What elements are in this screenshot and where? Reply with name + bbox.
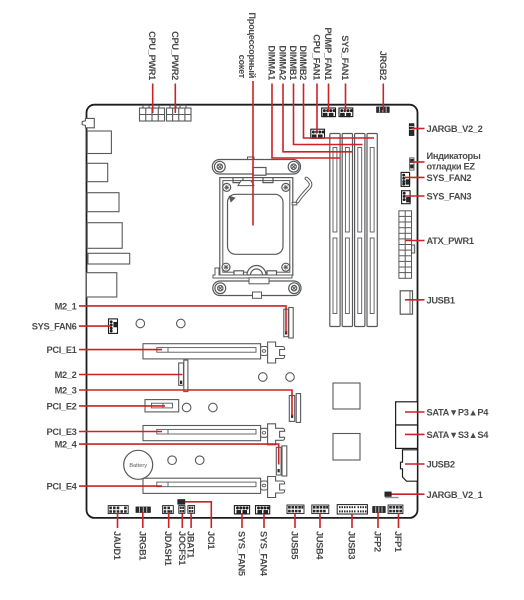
rear I/O port 2 (87, 163, 108, 181)
JUSB3 connector (337, 505, 367, 514)
PUMP_FAN1 connector (322, 108, 336, 117)
svg-text:JFP2: JFP2 (373, 531, 383, 552)
JOCFS1 connector (179, 506, 185, 514)
EZ debug LED indicators (410, 158, 414, 170)
leader SYS_FAN2 (405, 176, 425, 178)
SYS_FAN1 connector (339, 108, 353, 117)
leader JUSB5 (294, 514, 296, 528)
socket bottom arch (247, 266, 266, 276)
svg-text:PCI_E2: PCI_E2 (47, 401, 77, 411)
svg-text:JOCFS1: JOCFS1 (177, 531, 187, 565)
leader DIMMA1 (272, 84, 341, 159)
svg-text:сокет: сокет (237, 55, 247, 79)
SYS_FAN2 connector (401, 172, 410, 186)
PCI_E4 slot (143, 477, 285, 498)
standoff hole (286, 373, 295, 382)
DIMM slot DIMMA2 (342, 134, 352, 327)
svg-text:CPU_PWR2: CPU_PWR2 (170, 31, 180, 80)
svg-text:JARGB_V2_2: JARGB_V2_2 (427, 124, 483, 134)
CPU socket bottom bracket (213, 278, 301, 299)
leader M2_1 (79, 306, 286, 333)
leader SATA S3/S4 (405, 433, 425, 435)
leader JFP1 (398, 514, 400, 528)
svg-text:JUSB3: JUSB3 (347, 531, 357, 559)
CPU_PWR1 connector (140, 105, 165, 121)
leader DIMMB1 (294, 84, 363, 145)
M2_1 connector (284, 308, 293, 339)
leader SYS_FAN5 (241, 514, 243, 528)
leader PCI_E3 (79, 431, 162, 433)
rear I/O port 3 (87, 193, 119, 212)
leader SYS_FAN3 (405, 195, 425, 197)
JCI1 connector (178, 500, 185, 505)
CPU_PWR2 connector (167, 105, 192, 121)
leader SYS_FAN4 (263, 514, 265, 528)
JARGB_V2_2 connector (409, 124, 414, 136)
svg-text:JUSB2: JUSB2 (427, 460, 455, 470)
JFP1 connector (388, 505, 403, 514)
svg-text:DIMMA2: DIMMA2 (278, 45, 288, 80)
JUSB4 connector (312, 505, 329, 514)
leader M2_4 (79, 444, 279, 464)
standoff hole (168, 456, 177, 465)
leader M2_2 (79, 374, 183, 376)
leader PCI_E1 (79, 349, 162, 351)
JARGB_V2_1 connector (385, 492, 399, 498)
svg-text:SYS_FAN5: SYS_FAN5 (237, 531, 247, 576)
JAUD1 connector (108, 506, 128, 514)
standoff hole (182, 403, 191, 412)
standoff hole (195, 456, 204, 465)
JUSB5 connector (287, 505, 304, 514)
standoff hole (136, 319, 145, 328)
svg-text:ATX_PWR1: ATX_PWR1 (427, 236, 474, 246)
M2_3 connector (289, 394, 300, 423)
leader PCI_E4 (79, 485, 162, 487)
leader PUMP_FAN1 (328, 84, 330, 113)
leader DIMMA2 (283, 84, 352, 152)
leader SYS_FAN1 (345, 84, 347, 113)
svg-text:SYS_FAN2: SYS_FAN2 (427, 173, 472, 183)
svg-text:DIMMB1: DIMMB1 (288, 45, 298, 80)
JRGB2 connector (377, 107, 390, 112)
svg-text:JBAT1: JBAT1 (186, 531, 196, 558)
leader JDASH1 (168, 514, 170, 529)
PCI_E3 slot (143, 424, 285, 445)
leader JRGB2 (382, 84, 384, 111)
svg-text:SATA▼S3▲S4: SATA▼S3▲S4 (427, 430, 490, 440)
svg-text:SATA▼P3▲P4: SATA▼P3▲P4 (427, 408, 490, 418)
CPU socket top bracket (212, 157, 300, 175)
leader PCI_E2 (79, 405, 165, 407)
svg-text:JDASH1: JDASH1 (163, 531, 173, 566)
leader JUSB2 (405, 463, 425, 465)
M2_2 connector (179, 360, 188, 392)
leader CPU_PWR1 (152, 84, 154, 114)
leader JUSB4 (319, 514, 321, 528)
leader DIMMB2 (304, 84, 375, 139)
svg-text:Battery: Battery (129, 463, 147, 469)
svg-text:SYS_FAN1: SYS_FAN1 (340, 35, 350, 80)
svg-text:CPU_PWR1: CPU_PWR1 (147, 31, 157, 80)
svg-text:JCI1: JCI1 (206, 531, 216, 549)
leader EZ debug LEDs (412, 161, 425, 163)
rear I/O port 6 (86, 273, 116, 297)
JRGB1 connector (136, 507, 150, 512)
PCI_E1 slot (143, 342, 285, 363)
svg-text:M2_4: M2_4 (55, 440, 78, 450)
leader JAUD1 (117, 514, 119, 529)
svg-text:JUSB4: JUSB4 (315, 531, 325, 560)
svg-text:JARGB_V2_1: JARGB_V2_1 (427, 490, 483, 500)
svg-text:PCI_E1: PCI_E1 (47, 345, 77, 355)
JUSB2 connector (401, 450, 418, 481)
leader JRGB1 (142, 513, 144, 529)
CPU_FAN1 connector (311, 129, 325, 138)
leader JFP2 (377, 513, 379, 529)
rear I/O port 5 (88, 253, 130, 264)
leader ATX_PWR1 (405, 240, 425, 242)
svg-text:M2_3: M2_3 (55, 386, 77, 396)
JFP2 connector (373, 507, 386, 513)
leader SATA P3/P4 (405, 411, 425, 413)
battery (124, 450, 153, 479)
SYS_FAN5 connector (234, 506, 249, 514)
CPU chip area (228, 194, 284, 254)
leader JCI1 (185, 502, 212, 528)
svg-text:отладки EZ: отладки EZ (427, 162, 476, 172)
standoff hole (209, 403, 218, 412)
CPU socket lever (292, 179, 310, 205)
svg-text:SYS_FAN6: SYS_FAN6 (32, 322, 77, 332)
svg-text:JUSB1: JUSB1 (427, 296, 455, 306)
board outline (87, 105, 418, 518)
standoff hole (177, 319, 186, 328)
svg-text:JFP1: JFP1 (393, 531, 403, 552)
SATA P3/P4 connector (396, 402, 418, 425)
CPU socket frame (213, 178, 293, 278)
DIMM slot DIMMA1 (330, 134, 340, 327)
svg-text:PCI_E3: PCI_E3 (47, 427, 77, 437)
SATA S3/S4 connector (396, 425, 418, 448)
leader JARGB_V2_2 (412, 128, 425, 130)
leader JARGB_V2_1 (392, 493, 425, 495)
M2_4 connector (276, 446, 287, 476)
ATX_PWR1 connector (399, 211, 415, 278)
svg-text:PUMP_FAN1: PUMP_FAN1 (323, 27, 333, 80)
chipset square 1 (333, 383, 360, 409)
svg-text:SYS_FAN3: SYS_FAN3 (427, 192, 472, 202)
svg-text:M2_1: M2_1 (55, 301, 77, 311)
DIMM slot DIMMB2 (367, 134, 377, 327)
leader JBAT1 (190, 514, 192, 529)
JBAT1 connector (188, 506, 195, 514)
rear I/O port 4 (87, 223, 122, 249)
svg-text:Процессорный: Процессорный (247, 12, 257, 78)
leader JUSB1 (405, 299, 425, 301)
JUSB1 connector (400, 291, 412, 314)
svg-text:DIMMB2: DIMMB2 (298, 45, 308, 80)
PCI_E2 slot (145, 400, 179, 412)
svg-text:DIMMA1: DIMMA1 (267, 45, 277, 80)
leader SYS_FAN6 (79, 325, 111, 327)
svg-text:M2_2: M2_2 (55, 370, 77, 380)
JDASH1 connector (163, 506, 174, 514)
svg-text:Индикаторы: Индикаторы (427, 151, 481, 161)
leader JOCFS1 (181, 514, 183, 529)
rear I/O port 1 (87, 131, 111, 154)
rear I/O notch (82, 118, 94, 127)
svg-text:SYS_FAN4: SYS_FAN4 (259, 531, 269, 577)
SYS_FAN6 connector (109, 319, 118, 334)
DIMM slot DIMMB1 (355, 134, 365, 327)
SYS_FAN4 connector (256, 506, 270, 514)
leader M2_3 (79, 390, 292, 416)
svg-text:JUSB5: JUSB5 (290, 531, 300, 559)
SYS_FAN3 connector (402, 191, 411, 204)
leader CPU socket (252, 81, 254, 226)
svg-text:JRGB2: JRGB2 (378, 51, 388, 80)
chipset square 2 (333, 434, 360, 461)
svg-text:JRGB1: JRGB1 (137, 531, 147, 560)
leader JUSB3 (351, 514, 353, 528)
svg-text:CPU_FAN1: CPU_FAN1 (312, 34, 322, 80)
leader CPU_FAN1 (316, 84, 318, 134)
standoff hole (259, 373, 268, 382)
svg-text:PCI_E4: PCI_E4 (47, 482, 78, 492)
svg-text:JAUD1: JAUD1 (112, 531, 122, 560)
leader CPU_PWR2 (174, 84, 176, 114)
